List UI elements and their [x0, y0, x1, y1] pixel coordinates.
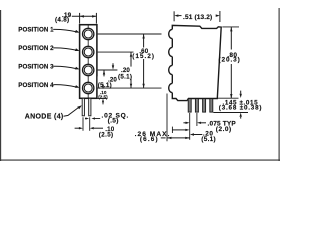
dimension .20 (5.1) pos3-pos4: [103, 70, 105, 88]
dimension .80 (20.3) height: [222, 26, 239, 28]
extension line side pin1 (long): [189, 113, 191, 140]
dimension .075 TYP (2.0) pin pitch: [183, 122, 185, 124]
extension line position 2 center: [98, 51, 137, 53]
LED position 1 lens: [83, 28, 94, 39]
extension line pin bottoms: [213, 112, 248, 114]
face segment 3-4: [171, 75, 173, 84]
extension line side pin2: [196, 113, 198, 126]
front pin right: [89, 98, 91, 116]
centerline through LEDs: [87, 25, 89, 98]
border frame right: [278, 8, 280, 161]
svg-text:(2.5): (2.5): [99, 132, 114, 139]
dome lens 2 profile: [169, 47, 173, 56]
svg-text:POSITION 3: POSITION 3: [18, 63, 54, 70]
svg-text:ANODE (4): ANODE (4): [25, 114, 64, 121]
front pin left (anode): [82, 98, 84, 116]
side body outline: [172, 25, 221, 100]
dome lens 4 profile: [169, 83, 173, 92]
svg-text:(5.1): (5.1): [118, 73, 132, 80]
side pin 4: [210, 99, 213, 113]
dimension .51 (13.2) overall depth: [173, 11, 175, 21]
leader position 2: [53, 48, 76, 50]
LED body front rectangle: [80, 25, 97, 99]
extension line body bottom right: [218, 97, 239, 99]
dimension .02 SQ (.5) pin size: [85, 118, 86, 120]
extension line position 1 center: [98, 33, 162, 35]
dimension .20 (5.1) face to pin1: [171, 127, 173, 133]
LED position 3 lens: [83, 64, 94, 75]
svg-text:(6.6): (6.6): [140, 136, 159, 143]
dimension .20 (5.1) pos2-pos3 (chain line): [130, 52, 132, 88]
svg-text:(5.1): (5.1): [98, 82, 112, 89]
leader position 3: [53, 66, 76, 68]
LED position 2 lens: [83, 46, 94, 57]
side pin 3: [203, 99, 206, 113]
LED position 4 lens: [83, 82, 94, 93]
svg-text:POSITION 4: POSITION 4: [18, 82, 54, 89]
svg-text:POSITION 2: POSITION 2: [18, 45, 54, 52]
floating arrow to pos3 line: [112, 63, 114, 66]
svg-text:(2.0): (2.0): [216, 126, 232, 133]
side pin 2: [195, 99, 198, 113]
svg-text:(5.1): (5.1): [201, 136, 216, 143]
extension line position 3 center: [98, 69, 118, 71]
svg-text:(.5): (.5): [108, 118, 119, 125]
svg-text:(3.68 ±0.38): (3.68 ±0.38): [219, 105, 263, 112]
dimension .60 (15.2) pos1-pos4: [143, 34, 145, 88]
leader position 1: [53, 29, 76, 32]
side pin 1: [188, 99, 191, 113]
svg-text:POSITION 1: POSITION 1: [18, 27, 54, 34]
svg-text:.51 (13.2): .51 (13.2): [183, 14, 212, 21]
leader anode: [64, 107, 80, 116]
dimension .10 (2.5) front pin spacing: [82, 117, 84, 131]
leader position 4: [53, 85, 76, 87]
svg-text:(15.2): (15.2): [132, 53, 155, 60]
dome lens 1 profile: [169, 29, 173, 38]
face segment 1-2: [171, 39, 173, 48]
dimension .145 +-.015 lead standoff: [240, 91, 242, 94]
border frame left: [0, 10, 2, 161]
svg-text:(20.3): (20.3): [219, 57, 241, 64]
extension line position 4 center: [98, 87, 162, 89]
face segment 2-3: [171, 57, 173, 66]
dome lens 3 profile: [169, 65, 173, 74]
border frame bottom: [0, 159, 280, 161]
svg-text:(4.8): (4.8): [55, 16, 69, 23]
dimension .10 (2.5) pos4 to bottom: [102, 84, 104, 85]
dimension .26 MAX (6.6) lens tip to pin1: [166, 94, 168, 142]
